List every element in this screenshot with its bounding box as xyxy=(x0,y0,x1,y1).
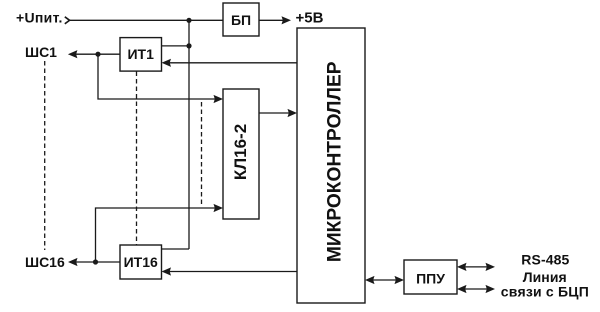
svg-text:ШС16: ШС16 xyxy=(25,254,65,270)
svg-text:ШС1: ШС1 xyxy=(25,44,57,60)
svg-text:МИКРОКОНТРОЛЛЕР: МИКРОКОНТРОЛЛЕР xyxy=(324,61,345,262)
svg-text:ИТ16: ИТ16 xyxy=(124,254,158,270)
svg-text:ИТ1: ИТ1 xyxy=(127,46,154,62)
svg-text:+5В: +5В xyxy=(296,9,324,26)
svg-text:ППУ: ППУ xyxy=(416,271,445,287)
svg-text:БП: БП xyxy=(231,12,251,28)
svg-text:связи с БЦП: связи с БЦП xyxy=(501,284,589,300)
svg-text:КЛ16-2: КЛ16-2 xyxy=(231,124,250,180)
svg-text:+Uпит.: +Uпит. xyxy=(16,9,62,25)
svg-text:RS-485: RS-485 xyxy=(521,252,569,268)
